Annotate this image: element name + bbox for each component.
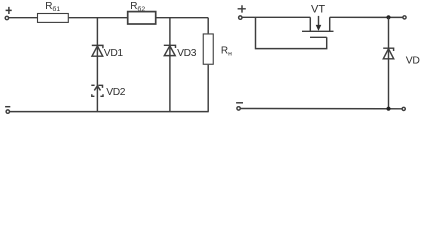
wire top rail: VT source to output [330,16,403,18]
svg-text:VD2: VD2 [106,87,126,98]
svg-text:Rб1: Rб1 [45,1,60,13]
zener diode VD [383,48,394,59]
wire bottom rail left circuit [10,111,209,113]
wire Rн bottom to bottom rail [207,65,209,112]
wire bottom rail right circuit [240,108,402,110]
terminal + (right circuit) [239,16,242,19]
svg-text:VD: VD [406,55,420,66]
wire vertical branch VD [388,17,390,108]
wire vertical branch VD3 [169,18,171,112]
svg-text:Rн: Rн [221,45,232,57]
VT gate bar [310,36,327,38]
terminal output bottom (right circuit) [402,107,405,110]
junction dot bottom (node VD anode) [386,107,390,111]
zener diode VD1 [92,45,103,56]
svg-text:VD3: VD3 [177,48,197,59]
wire drop into Rн [207,18,209,34]
VT substrate arrow [316,16,322,31]
VT channel [302,30,334,32]
label + (right circuit) [238,5,246,12]
transistor VT (field-effect) [302,16,334,37]
wire top rail: Rб2 to load corner [157,17,209,19]
terminal + (input, left circuit) [5,16,8,19]
zener diode VD2 (dashed) [91,85,103,96]
label - (left circuit) [5,106,10,108]
svg-text:VT: VT [311,3,325,15]
VT drain lead [309,17,311,31]
resistor Rб1 [38,14,69,23]
svg-text:Rб2: Rб2 [130,1,145,13]
terminal - (right circuit) [237,107,240,110]
svg-text:VD1: VD1 [104,48,124,59]
wire top rail: Rб1 to Rб2 [69,17,127,19]
resistor Rн (load) [203,34,213,64]
resistor Rб2 [128,12,156,24]
wire top rail: + to VT drain [242,16,310,18]
junction dot top (node VD cathode) [386,15,390,19]
wire top rail: + terminal to Rб1 [9,17,38,19]
label - (right circuit) [236,102,243,104]
terminal output top (right circuit) [403,16,406,19]
zener diode VD3 [164,45,176,55]
terminal - (left circuit) [6,110,9,113]
wire vertical branch VD1/VD2 [96,18,98,112]
wire gate tie (down, across, up to gate) [256,17,327,48]
VT source lead [329,17,331,31]
label + (left circuit) [6,7,12,14]
